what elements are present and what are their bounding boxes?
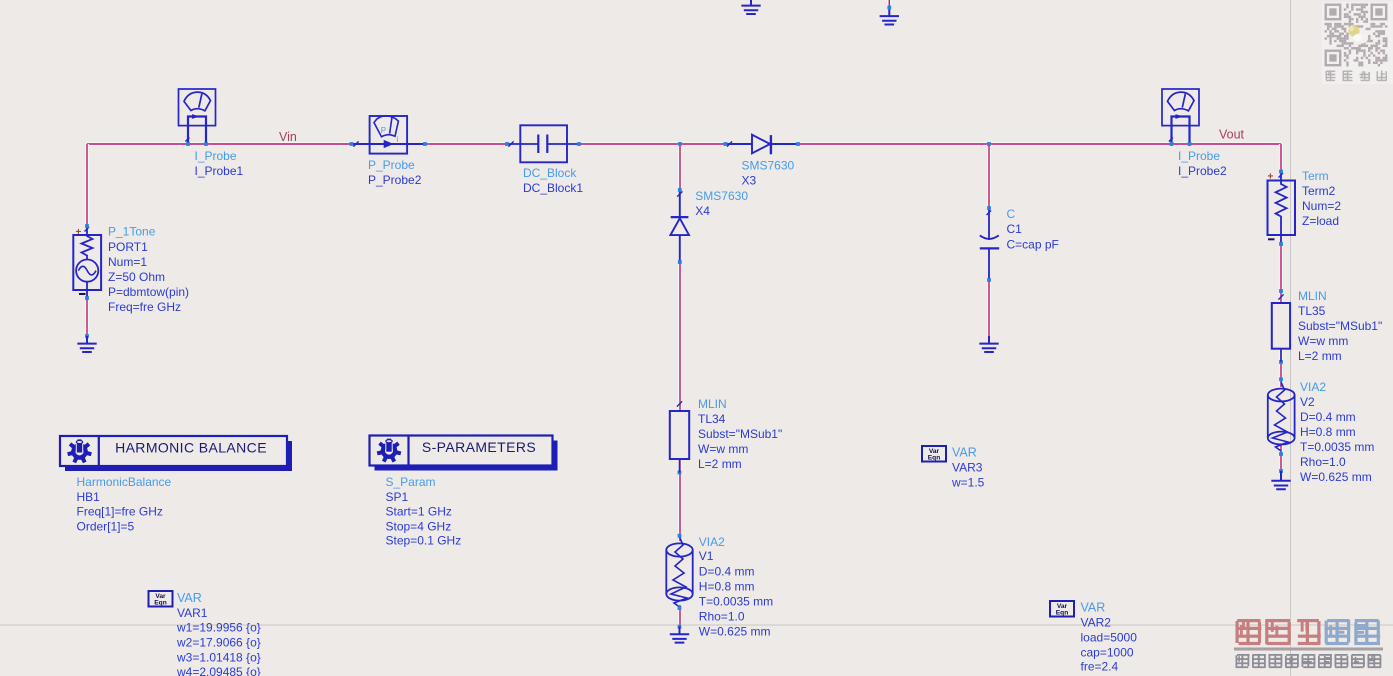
svg-text:C: C [1007,207,1016,221]
wire: output riser to Term2 [1279,144,1283,172]
svg-text:L=2 mm: L=2 mm [1298,349,1342,363]
svg-text:Subst="MSub1": Subst="MSub1" [698,427,782,441]
svg-text:w2=17.9066 {o}: w2=17.9066 {o} [176,636,261,650]
source PORT1 P_1Tone [73,224,101,338]
svg-text:X3: X3 [742,174,757,188]
svg-text:VIA2: VIA2 [699,535,725,549]
wire: bus DC_Block pin 2 to diode X3 anode [579,142,725,146]
svg-text:C1: C1 [1007,222,1023,236]
svg-text:T=0.0035 mm: T=0.0035 mm [1300,440,1374,454]
svg-text:VAR: VAR [177,591,202,605]
svg-text:Order[1]=5: Order[1]=5 [77,520,135,534]
P_Probe P_Probe2 (power probe) [350,116,427,154]
svg-text:P=dbmtow(pin): P=dbmtow(pin) [108,285,189,299]
svg-text:Freq=fre GHz: Freq=fre GHz [108,300,181,314]
svg-text:w3=1.01418 {o}: w3=1.01418 {o} [176,651,261,665]
svg-text:Eqn: Eqn [1056,610,1068,617]
svg-text:Z=50 Ohm: Z=50 Ohm [108,270,165,284]
svg-text:Num=2: Num=2 [1302,199,1341,213]
ground below PORT1 [77,336,96,352]
svg-text:Num=1: Num=1 [108,255,147,269]
svg-text:VAR: VAR [952,446,977,460]
svg-text:H=0.8 mm: H=0.8 mm [699,580,755,594]
svg-text:X4: X4 [695,204,710,218]
svg-text:L=2 mm: L=2 mm [698,457,742,471]
svg-text:H=0.8 mm: H=0.8 mm [1300,425,1356,439]
controller HB1 HARMONIC BALANCE [60,436,292,471]
ground stub top-right [880,8,899,25]
svg-text:SMS7630: SMS7630 [742,159,795,173]
svg-text:VIA2: VIA2 [1300,380,1326,394]
svg-text:DC_Block: DC_Block [523,166,577,180]
watermark logo bottom-right [1234,619,1383,668]
svg-text:W=w mm: W=w mm [698,442,748,456]
I_Probe I_Probe2 (ammeter, output) [1162,89,1199,146]
svg-text:Eqn: Eqn [928,455,940,462]
svg-text:TL35: TL35 [1298,304,1326,318]
svg-text:SP1: SP1 [386,490,409,504]
capacitor C1 (shunt) [980,206,999,282]
svg-text:Rho=1.0: Rho=1.0 [1300,455,1346,469]
ground below VIA2 V1 [670,627,689,643]
VAR VAR1 equation block [149,591,173,607]
VIA2 V1 (via to ground) [666,534,692,629]
VAR VAR3 equation block [922,446,946,462]
svg-text:T=0.0035 mm: T=0.0035 mm [699,595,773,609]
svg-text:V1: V1 [699,549,714,563]
wire: bus diode X3 cathode to output corner [798,142,1281,146]
svg-text:Subst="MSub1": Subst="MSub1" [1298,319,1382,333]
wire: MLIN TL34 to VIA2 V1 [678,460,682,541]
svg-text:SMS7630: SMS7630 [695,189,748,203]
svg-text:MLIN: MLIN [1298,289,1327,303]
svg-text:MLIN: MLIN [698,397,727,411]
wire: MLIN TL35 to VIA2 V2 [1279,349,1283,387]
wire: bus P_Probe pin 2 to DC_Block pin 1 [425,142,507,146]
svg-text:Term: Term [1302,169,1329,183]
wire: source riser PORT1 to bus corner [85,144,89,226]
wire: Vin bus from source corner to P_Probe pin 1 [87,142,352,146]
svg-text:+: + [76,227,82,238]
svg-text:Eqn: Eqn [154,600,166,607]
diode X3 SMS7630 (series) [724,135,800,155]
svg-text:Freq[1]=fre GHz: Freq[1]=fre GHz [77,505,163,519]
svg-text:S_Param: S_Param [386,475,436,489]
MLIN TL34 (microstrip line, mid branch) [670,401,689,474]
svg-text:D=0.4 mm: D=0.4 mm [1300,410,1356,424]
svg-text:VAR1: VAR1 [177,606,208,620]
svg-text:C=cap pF: C=cap pF [1007,238,1059,252]
svg-text:I_Probe2: I_Probe2 [1178,164,1227,178]
svg-text:+: + [1268,172,1274,183]
svg-text:HARMONIC BALANCE: HARMONIC BALANCE [115,440,267,456]
junction node at C1 branch [987,142,991,146]
svg-text:w4=2.09485 {o}: w4=2.09485 {o} [176,665,261,676]
svg-text:VAR2: VAR2 [1081,616,1112,630]
svg-text:P: P [381,126,386,135]
wire: VIA2 V2 to ground [1279,445,1283,471]
svg-text:V2: V2 [1300,395,1315,409]
wire: PORT1 minus to ground [85,298,89,336]
svg-text:Z=load: Z=load [1302,214,1339,228]
svg-text:I_Probe: I_Probe [195,149,237,163]
wire: VIA2 V1 to ground [678,605,682,627]
svg-text:VAR3: VAR3 [952,461,983,475]
junction node at X4 branch [678,142,682,146]
svg-text:HB1: HB1 [77,490,101,504]
svg-text:W=0.625 mm: W=0.625 mm [1300,470,1372,484]
svg-text:W=0.625 mm: W=0.625 mm [699,625,771,639]
watermark QR code (WeChat) [1322,2,1393,84]
wire: X4 cathode down to MLIN TL34 [678,262,682,410]
ground stub top-left [741,0,760,14]
ground below VIA2 V2 [1271,471,1290,489]
svg-text:Start=1 GHz: Start=1 GHz [386,505,452,519]
DC_Block DC_Block1 (series blocking capacitor) [505,125,581,162]
VIA2 V2 (via to ground, right) [1268,377,1295,473]
svg-text:Rho=1.0: Rho=1.0 [699,610,745,624]
wire: C1 branch from bus junction down [987,144,991,208]
svg-text:w1=19.9956 {o}: w1=19.9956 {o} [176,621,261,635]
svg-text:I_Probe: I_Probe [1178,149,1220,163]
svg-text:D=0.4 mm: D=0.4 mm [699,565,755,579]
svg-text:Stop=4 GHz: Stop=4 GHz [386,520,452,534]
wire: stub to top ground [887,0,891,8]
svg-text:load=5000: load=5000 [1081,631,1138,645]
svg-text:PORT1: PORT1 [108,240,148,254]
svg-text:P_Probe: P_Probe [368,158,415,172]
svg-text:cap=1000: cap=1000 [1081,646,1134,660]
svg-text:i: i [397,135,399,144]
svg-text:Step=0.1 GHz: Step=0.1 GHz [386,534,462,548]
svg-text:Term2: Term2 [1302,184,1336,198]
svg-text:P_Probe2: P_Probe2 [368,173,422,187]
svg-text:P_1Tone: P_1Tone [108,225,156,239]
svg-text:Vout: Vout [1219,128,1245,142]
Term Term2 (load termination) [1268,170,1296,246]
wire: Term2 bottom to MLIN TL35 [1279,244,1283,303]
svg-text:VAR: VAR [1081,601,1106,615]
ground below C1 [979,336,998,352]
wire: X4 branch from bus junction down [678,144,682,190]
svg-text:S-PARAMETERS: S-PARAMETERS [422,439,536,455]
svg-text:Vin: Vin [279,130,297,144]
diode X4 SMS7630 (shunt, cathode up) [670,188,689,264]
svg-text:HarmonicBalance: HarmonicBalance [77,475,172,489]
svg-text:w=1.5: w=1.5 [951,476,985,490]
svg-text:TL34: TL34 [698,412,726,426]
svg-text:fre=2.4: fre=2.4 [1081,660,1119,674]
VAR VAR2 equation block [1050,601,1074,617]
controller SP1 S-PARAMETERS [370,436,558,471]
svg-text:I_Probe1: I_Probe1 [195,164,244,178]
svg-text:W=w mm: W=w mm [1298,334,1348,348]
I_Probe I_Probe1 (ammeter) [179,89,216,146]
wire: C1 bottom to ground [987,280,991,336]
svg-text:DC_Block1: DC_Block1 [523,181,583,195]
MLIN TL35 (microstrip line, right) [1272,289,1290,364]
